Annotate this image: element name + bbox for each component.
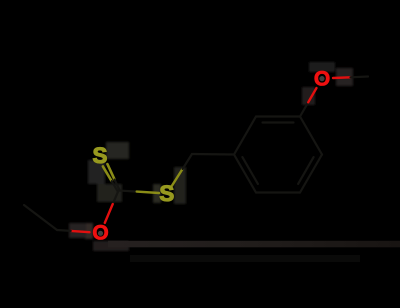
jpeg artifact block left of S1 (88, 160, 105, 184)
svg-text:O: O (92, 222, 108, 245)
O2 counter haze (319, 76, 324, 81)
bond C=S1 line1 dark half (115, 180, 120, 190)
bond CH2benzyl-ring ipso (192, 153, 234, 156)
bond C=S1 line1 olive half (107, 164, 114, 180)
ring double bond left inner (242, 157, 258, 184)
bond C=S1 line2 olive half (103, 166, 112, 181)
bond C-S2 dark half (119, 191, 137, 192)
ring bond V6-V5 (300, 155, 322, 193)
ring bond V2-V1 top (256, 115, 300, 117)
svg-text:S: S (93, 143, 108, 168)
jpeg artifact block near ethyl red stub (69, 223, 86, 238)
bond CH2-CH3 ethyl (24, 205, 57, 230)
bond C=S1 line2 dark half (112, 181, 118, 191)
svg-text:O: O (314, 68, 330, 91)
jpeg artifact block right of O2 along methyl (336, 68, 353, 86)
bond C-O1 dark half (113, 191, 119, 205)
bond O2-CH3 dark half (351, 75, 369, 78)
jpeg artifact block right of S2 (174, 167, 186, 204)
ring double bond right inner (298, 157, 314, 184)
bond ring-O2 dark half (300, 102, 308, 116)
jpeg artifact block above O2 (309, 62, 335, 72)
bond S2-CH2benzyl olive half (171, 169, 183, 187)
bond O2-CH3 red half (333, 76, 351, 79)
bond ring-O2 red half (308, 88, 316, 102)
jpeg artifact block near S1 top-right (106, 142, 129, 159)
ring double bond top inner (263, 121, 294, 123)
jpeg artifact block below O1 (93, 241, 129, 251)
svg-text:S: S (159, 181, 174, 206)
bond C-S2 olive half (137, 192, 159, 193)
bond O1-CH2ethyl dark half (57, 229, 71, 232)
bond S2-CH2benzyl dark half (183, 154, 192, 169)
ring bond V4-V3 (234, 155, 256, 193)
bond C-O1 red half (105, 204, 113, 223)
ring bond V3-V2 (234, 117, 256, 155)
jpeg artifact block left of O1 (85, 223, 93, 239)
ring bond V1-V6 (300, 117, 322, 155)
ring bond V5-V4 bottom (256, 191, 300, 193)
jpeg artifact block below O2 (302, 87, 315, 105)
bond O1-CH2ethyl red half (71, 231, 90, 232)
jpeg artifact block below S1 double bond (97, 184, 122, 202)
bottom faint band 2 (130, 255, 360, 262)
jpeg artifact block left of S2 (153, 184, 161, 203)
O1 counter haze (98, 231, 103, 236)
